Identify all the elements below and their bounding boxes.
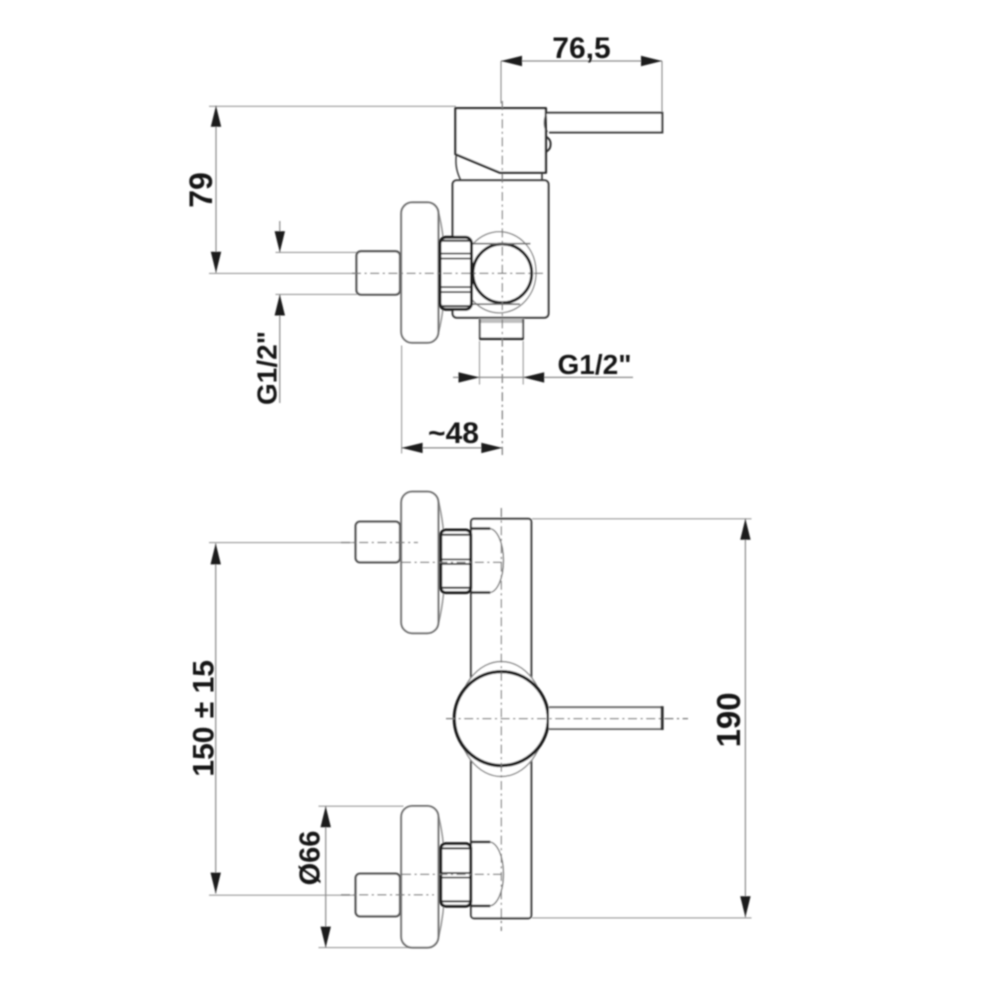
svg-text:76,5: 76,5 bbox=[552, 32, 610, 65]
svg-text:79: 79 bbox=[183, 172, 219, 208]
svg-text:Ø66: Ø66 bbox=[295, 831, 327, 886]
svg-text:190: 190 bbox=[710, 692, 747, 747]
svg-text:150 ± 15: 150 ± 15 bbox=[188, 660, 221, 777]
svg-text:~48: ~48 bbox=[428, 417, 479, 450]
svg-text:G1/2": G1/2" bbox=[558, 349, 632, 380]
svg-text:G1/2": G1/2" bbox=[252, 331, 283, 405]
